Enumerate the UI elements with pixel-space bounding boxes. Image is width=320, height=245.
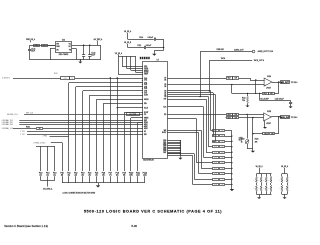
svg-text:(3): (3) bbox=[82, 175, 85, 177]
svg-text:4 PB0: 4 PB0 bbox=[43, 136, 47, 138]
connector TP row labels (right group) bbox=[60, 173, 147, 177]
svg-text:MAX197BCNI: MAX197BCNI bbox=[143, 158, 154, 161]
wire regulator ground rail bbox=[30, 59, 101, 61]
capacitor C115 (reference filter) bbox=[289, 100, 292, 106]
svg-text:BUSY: BUSY bbox=[162, 132, 166, 134]
ground symbol (pack 2) bbox=[283, 194, 287, 199]
svg-text:LF347: LF347 bbox=[266, 123, 271, 125]
capacitor C114 0.01uF bbox=[139, 37, 164, 41]
svg-text:R113: R113 bbox=[264, 133, 267, 135]
svg-text:LF347: LF347 bbox=[266, 87, 271, 89]
wire connector left pin 1 bbox=[40, 146, 42, 171]
wire op-amp 1 - input bbox=[239, 78, 265, 81]
wire connector fan 3 bbox=[83, 91, 144, 172]
resistor RP100 element 2 bbox=[258, 174, 262, 195]
svg-text:AN REF_CLK: AN REF_CLK bbox=[7, 113, 18, 116]
resistor R127 10K (ladder) bbox=[201, 168, 232, 171]
wire connector left-group feed rail bbox=[36, 146, 55, 148]
wire connector fan 1 bbox=[69, 83, 144, 172]
wire U7 D2 to bundle bbox=[167, 97, 208, 147]
svg-text:DIN: DIN bbox=[144, 103, 147, 105]
svg-text:MIX_OUT: MIX_OUT bbox=[281, 82, 290, 84]
resistor RP101 element 2 bbox=[285, 174, 289, 195]
svg-text:AN_GND_A: AN_GND_A bbox=[43, 188, 53, 191]
svg-text:R121: R121 bbox=[214, 136, 217, 138]
svg-text:2 TG1: 2 TG1 bbox=[20, 131, 25, 133]
resistor R128 10K (ladder) bbox=[199, 173, 233, 176]
wire vertical tap B (to connector) bbox=[116, 77, 118, 171]
wire U7 5th top pin bbox=[118, 74, 143, 76]
wire connector left pin 3 bbox=[54, 146, 56, 171]
capacitor C111 0.01uF bbox=[137, 45, 163, 49]
wire connector fan 6 bbox=[103, 103, 143, 171]
svg-text:1K: 1K bbox=[241, 142, 243, 144]
op-amp U15A LF347 bbox=[264, 75, 272, 89]
wire connector verticals (right group upper stubs) bbox=[63, 176, 145, 183]
svg-text:R100: R100 bbox=[64, 78, 67, 80]
power flag PWR_A (regulator input) bbox=[26, 38, 36, 42]
wire left group rail bbox=[41, 176, 55, 180]
wire right end drop of output rail bbox=[100, 45, 102, 60]
wire VA_VD_B to C111 bbox=[128, 47, 145, 49]
svg-text:R123: R123 bbox=[241, 138, 245, 140]
svg-text:R115: R115 bbox=[227, 114, 230, 116]
svg-text:R123: R123 bbox=[214, 147, 217, 149]
wire U7 bottom pin to rung 10 bbox=[167, 155, 192, 184]
svg-text:10K: 10K bbox=[221, 162, 223, 164]
wire bundle extra 1 bbox=[167, 93, 213, 137]
svg-text:0.01uF: 0.01uF bbox=[146, 45, 152, 47]
wire bundle extra 2 bbox=[167, 95, 215, 142]
svg-text:4 PWM_CTRL0: 4 PWM_CTRL0 bbox=[33, 143, 45, 145]
wire ladder common vertical bbox=[231, 131, 233, 189]
wire regulator output rail bbox=[72, 45, 101, 47]
capacitor C120 (input bypass) bbox=[28, 45, 35, 60]
svg-text:0.01uF: 0.01uF bbox=[148, 37, 154, 39]
wire op-amp 2 feedback vertical bbox=[278, 117, 280, 134]
svg-text:CH5: CH5 bbox=[144, 88, 147, 90]
wire trimpot tap from - input bbox=[246, 114, 247, 139]
resistor R120 10K (ladder) bbox=[211, 130, 232, 133]
wire TG2 bbox=[27, 134, 143, 136]
svg-text:R10B 10K: R10B 10K bbox=[217, 49, 225, 51]
resistor RP100 element 1 bbox=[253, 174, 257, 195]
svg-text:R120: R120 bbox=[214, 130, 217, 132]
wire op-amp 2 feedback rail bbox=[253, 133, 279, 135]
svg-text:REF: REF bbox=[144, 120, 147, 122]
svg-text:REF_CLK: REF_CLK bbox=[26, 112, 34, 114]
wire AGND_OUT to terminal bbox=[199, 52, 252, 98]
wire U100 input pin stubs bbox=[48, 45, 56, 47]
op-amp U7 main ADC IC box bbox=[143, 60, 168, 159]
wire U7 D6 to op-amp 1 + input bbox=[167, 84, 264, 94]
svg-text:TO J10 4: TO J10 4 bbox=[291, 82, 298, 84]
ground symbol (regulator) bbox=[78, 59, 82, 63]
svg-text:CH4: CH4 bbox=[144, 86, 147, 88]
wire connector fan 4 bbox=[90, 95, 144, 171]
power flag VD_VD_A bbox=[115, 52, 123, 56]
svg-text:TACH_OUT 4: TACH_OUT 4 bbox=[254, 59, 264, 62]
svg-text:10K: 10K bbox=[221, 141, 223, 143]
svg-text:CH7: CH7 bbox=[144, 92, 147, 94]
inductor L100 on input rail bbox=[42, 45, 48, 47]
svg-text:(1): (1) bbox=[54, 175, 57, 177]
power flag VA_VD_B bbox=[124, 41, 131, 47]
svg-text:10K: 10K bbox=[221, 136, 223, 138]
resistor R124 10K (ladder) bbox=[206, 152, 233, 154]
resistor pack RP101 rails bbox=[282, 174, 287, 195]
capacitor bank C100-C104 (dark row) bbox=[140, 57, 150, 59]
capacitor C122 (output bypass) bbox=[88, 45, 95, 60]
ground symbol (U7 address pins) bbox=[178, 156, 182, 159]
svg-text:L1: L1 bbox=[44, 45, 46, 47]
svg-text:8-36: 8-36 bbox=[131, 224, 137, 228]
net label block op-amp 2 out bbox=[280, 116, 291, 120]
wire SIGNAL_IN3 bbox=[19, 124, 143, 126]
svg-text:R112: R112 bbox=[242, 98, 246, 100]
svg-text:10uF: 10uF bbox=[31, 50, 35, 52]
ground symbol (C115) bbox=[289, 106, 293, 108]
U7 right lower pin labels bbox=[163, 140, 166, 154]
svg-text:(10): (10) bbox=[129, 175, 133, 177]
svg-text:10K: 10K bbox=[221, 184, 223, 186]
wire regulator input rail bbox=[30, 45, 56, 47]
svg-text:CH3: CH3 bbox=[144, 84, 147, 86]
svg-text:10K: 10K bbox=[271, 133, 274, 135]
svg-text:D4: D4 bbox=[164, 86, 166, 88]
wire U7 D0 to bundle bbox=[167, 107, 203, 158]
svg-text:TACH: TACH bbox=[221, 57, 226, 60]
resistor RP101 element 1 bbox=[279, 174, 283, 195]
op-amp U15B LF347 bbox=[264, 111, 272, 125]
svg-text:R: R bbox=[279, 180, 280, 182]
svg-text:R126: R126 bbox=[214, 162, 217, 164]
svg-text:R124: R124 bbox=[255, 138, 259, 140]
wire SIGNAL_CLK with series resistor R101 bbox=[13, 127, 143, 130]
resistor RP100 element 3 bbox=[263, 174, 267, 195]
wire U7 D1 to bundle bbox=[167, 99, 206, 152]
wire VD_VD_A feed 4 bbox=[135, 56, 137, 72]
wire bus line with resistor R100 to U7 pin bbox=[2, 73, 143, 80]
resistor R125 10K (ladder) bbox=[204, 157, 233, 160]
svg-text:R117: R117 bbox=[227, 78, 230, 80]
svg-text:INT: INT bbox=[164, 99, 167, 101]
svg-text:10K: 10K bbox=[270, 93, 273, 95]
node label left group net bbox=[43, 181, 53, 191]
resistor R129 10K (ladder) bbox=[194, 178, 232, 180]
svg-text:LOGIC CONNECTIONS IN SECTOR GR: LOGIC CONNECTIONS IN SECTOR GRID bbox=[63, 193, 96, 195]
wire connector fan 8 bbox=[131, 118, 144, 172]
resistor R119 10K (op-amp 1 feedback) bbox=[263, 93, 275, 96]
svg-text:D6: D6 bbox=[164, 79, 166, 81]
svg-text:D0: D0 bbox=[164, 96, 166, 98]
ground symbol (ladder common) bbox=[230, 189, 235, 191]
svg-text:AGND_OUT TO J10: AGND_OUT TO J10 bbox=[258, 50, 273, 53]
wire VD_VD_A feed 3 bbox=[130, 56, 132, 70]
svg-text:REG-78M05: REG-78M05 bbox=[59, 54, 68, 56]
svg-text:CH6: CH6 bbox=[144, 91, 147, 93]
resistor RP100 element 4 bbox=[268, 174, 272, 195]
svg-text:U14: U14 bbox=[62, 39, 65, 41]
svg-text:R127: R127 bbox=[214, 168, 217, 170]
svg-text:DB7: DB7 bbox=[163, 152, 166, 154]
wire AN_REF line with net label bbox=[24, 112, 143, 114]
svg-text:(12): (12) bbox=[143, 175, 147, 177]
resistor R112 (vertical, to ground) bbox=[242, 93, 249, 106]
svg-text:D7: D7 bbox=[164, 78, 166, 80]
svg-text:(2): (2) bbox=[75, 175, 78, 177]
wire U7 address pins to common bbox=[167, 140, 181, 156]
svg-text:10K: 10K bbox=[235, 114, 238, 116]
resistor R121 10K (ladder) bbox=[213, 135, 233, 138]
wire connector fan 2 bbox=[76, 87, 144, 172]
svg-text:(11): (11) bbox=[136, 175, 140, 177]
ground symbol (pack 1) bbox=[257, 194, 261, 199]
svg-text:U7: U7 bbox=[157, 60, 159, 62]
wire SIGNAL_IN1 bbox=[19, 120, 143, 122]
svg-text:R116: R116 bbox=[227, 117, 230, 119]
ground symbol (R112) bbox=[246, 106, 250, 108]
svg-text:D2: D2 bbox=[164, 93, 166, 95]
svg-text:DOUT: DOUT bbox=[144, 112, 148, 114]
node label ladder net bbox=[239, 137, 243, 142]
capacitor C121 (output bypass) bbox=[82, 45, 85, 60]
net label box on AN_REF line bbox=[127, 113, 140, 116]
svg-text:R124: R124 bbox=[214, 152, 217, 154]
wire TACH line bbox=[209, 60, 253, 92]
resistor R1210 10K (ladder) bbox=[193, 184, 233, 187]
svg-text:CH1: CH1 bbox=[144, 80, 147, 82]
wire U7 D3 to bundle bbox=[167, 91, 211, 131]
svg-text:FB: FB bbox=[69, 49, 71, 51]
node label AN_REF_A bbox=[7, 113, 18, 116]
svg-text:10K: 10K bbox=[235, 117, 238, 119]
voltage regulator U100 bbox=[56, 39, 72, 56]
wire VD_VD_A feed 2 bbox=[126, 56, 128, 68]
wire connector fan 7 bbox=[124, 113, 143, 172]
wire U7 D7 to amplifier stage bbox=[167, 78, 226, 80]
wire op-amp 2 output bbox=[271, 116, 280, 117]
wire op-amp 1 feedback vertical bbox=[255, 80, 256, 94]
wire PWM_CTRL to connector pin 4 bbox=[51, 142, 62, 144]
U7 left pin labels (top cluster) bbox=[144, 66, 149, 76]
svg-text:D1: D1 bbox=[164, 94, 166, 96]
resistor R122 10K (ladder) bbox=[213, 141, 233, 143]
resistor R116 10K (op-amp 2 + input) bbox=[226, 117, 264, 120]
svg-text:TACH_OUT: TACH_OUT bbox=[280, 116, 291, 119]
svg-text:FB: FB bbox=[35, 45, 37, 47]
resistor R126 10K (ladder) bbox=[197, 162, 233, 165]
svg-text:10uF: 10uF bbox=[91, 54, 95, 56]
wire right group ground rail bbox=[62, 182, 145, 184]
svg-text:10K: 10K bbox=[221, 179, 223, 181]
svg-text:R: R bbox=[285, 188, 286, 190]
svg-text:SHDN: SHDN bbox=[144, 99, 148, 101]
svg-text:D5: D5 bbox=[164, 84, 166, 86]
U7 right pin labels bbox=[162, 78, 167, 135]
svg-text:10K: 10K bbox=[221, 130, 223, 132]
svg-text:U15B: U15B bbox=[267, 111, 271, 113]
resistor R117 10K (op-amp 1 input) bbox=[227, 77, 265, 81]
wire bundle extra 3 (U7 lowest right pin) bbox=[167, 119, 196, 163]
svg-text:R: R bbox=[279, 188, 280, 190]
node label R124 20K bbox=[255, 138, 259, 143]
resistor R123 10K (ladder) bbox=[208, 146, 232, 149]
resistor R113 10K (op-amp 2 feedback) bbox=[263, 133, 275, 136]
wire VD_VD_A horizontal tie bbox=[118, 56, 135, 58]
svg-text:C111: C111 bbox=[137, 45, 141, 47]
svg-text:C114: C114 bbox=[139, 37, 143, 39]
svg-text:10K: 10K bbox=[221, 168, 223, 170]
wire GA_REF link bbox=[259, 93, 291, 101]
power flag VA_VD_D (pack 2) bbox=[281, 165, 289, 174]
svg-text:4 SIGNAL_CLK: 4 SIGNAL_CLK bbox=[2, 127, 15, 130]
svg-text:5500-120 LOGIC BOARD VER C SCH: 5500-120 LOGIC BOARD VER C SCHEMATIC (PA… bbox=[84, 209, 222, 213]
svg-text:TO J10 4: TO J10 4 bbox=[291, 117, 298, 119]
svg-text:10: 10 bbox=[39, 128, 41, 130]
svg-text:10K: 10K bbox=[235, 78, 238, 80]
U7 left pin labels (mid) bbox=[142, 78, 149, 136]
svg-text:20K: 20K bbox=[255, 142, 258, 144]
svg-text:CS: CS bbox=[144, 114, 146, 116]
svg-text:R129: R129 bbox=[214, 179, 217, 181]
svg-text:R122: R122 bbox=[214, 141, 217, 143]
svg-text:R130: R130 bbox=[214, 184, 217, 186]
svg-text:2 TG2: 2 TG2 bbox=[20, 134, 25, 136]
svg-text:R119: R119 bbox=[263, 93, 266, 95]
svg-text:D3: D3 bbox=[164, 91, 166, 93]
wire U7 BUSY to bundle bbox=[167, 133, 199, 174]
wire connector fan 9 bbox=[138, 123, 144, 172]
svg-text:CH0: CH0 bbox=[144, 78, 147, 80]
svg-text:4 MXOUT: 4 MXOUT bbox=[2, 78, 10, 80]
wire U7 RD to bundle bbox=[167, 130, 201, 168]
resistor R115 10K (op-amp 2 - input) bbox=[227, 114, 264, 117]
svg-text:VREF: VREF bbox=[144, 74, 148, 76]
wire + input branch to ground bbox=[252, 117, 253, 151]
wire connector fan stub (tap column) bbox=[117, 107, 144, 108]
svg-text:R125: R125 bbox=[214, 157, 217, 159]
power flag VA_VD_A bbox=[124, 30, 132, 34]
ground symbol (connector rail) bbox=[96, 183, 101, 187]
wire op-amp 1 output bbox=[272, 81, 280, 82]
svg-text:Version C Board (see Section 1: Version C Board (see Section 1.13) bbox=[4, 224, 48, 228]
wire VA_VD_A to C114 bbox=[127, 34, 129, 39]
svg-text:10K: 10K bbox=[221, 152, 223, 154]
ground symbol (op-amp 2 bias) bbox=[263, 121, 267, 129]
svg-text:10: 10 bbox=[71, 78, 73, 80]
wire connector left pin 2 bbox=[47, 146, 49, 171]
svg-text:CH2: CH2 bbox=[144, 82, 147, 84]
connector TP row labels (left group) bbox=[39, 173, 56, 177]
power flag VA_VD_C (pack 1) bbox=[256, 165, 264, 174]
ground symbol (trim network) bbox=[251, 151, 255, 153]
wire VD_VD_A feed 1 bbox=[122, 56, 124, 66]
net label block op-amp 1 out bbox=[281, 81, 290, 85]
resistor pack RP100 rails bbox=[256, 174, 271, 195]
wire SIGNAL_IN2 bbox=[19, 122, 143, 124]
potentiometer R123 (gain trim) bbox=[241, 138, 253, 148]
ground symbol (decoupling caps) bbox=[152, 51, 156, 56]
power flag +5V_REF_A (regulator output) bbox=[93, 38, 103, 45]
wire vertical tap A (to connector) bbox=[110, 77, 112, 171]
wire connector fan 5 bbox=[97, 99, 144, 171]
wire TG1 bbox=[27, 131, 143, 133]
svg-text:R128: R128 bbox=[214, 173, 217, 175]
svg-text:HBEN: HBEN bbox=[144, 117, 148, 119]
svg-text:R101: R101 bbox=[26, 127, 30, 129]
svg-text:4 SIGNAL_IN3: 4 SIGNAL_IN3 bbox=[2, 123, 13, 126]
wire U7 bottom pin to rung 9 bbox=[167, 154, 194, 180]
svg-text:AGND_OUT: AGND_OUT bbox=[234, 48, 243, 51]
fuse F100 on input rail bbox=[34, 45, 40, 47]
wire U7 INT to op-amp 2 bbox=[167, 114, 226, 116]
svg-text:(1): (1) bbox=[47, 175, 50, 177]
svg-text:10K: 10K bbox=[221, 173, 223, 175]
svg-text:R100: R100 bbox=[54, 73, 58, 75]
terminal circle AGND_OUT bbox=[252, 50, 255, 53]
svg-text:C115 0.01uF: C115 0.01uF bbox=[275, 99, 284, 101]
svg-text:R: R bbox=[285, 180, 286, 182]
wire feedback rail op-amp 1 bbox=[232, 82, 279, 94]
svg-text:10K: 10K bbox=[221, 147, 223, 149]
wire aux line to connector bbox=[50, 136, 69, 138]
wire caps common drop bbox=[154, 39, 164, 50]
svg-text:10K: 10K bbox=[221, 157, 223, 159]
wire U100 lower right pin bbox=[72, 48, 76, 50]
